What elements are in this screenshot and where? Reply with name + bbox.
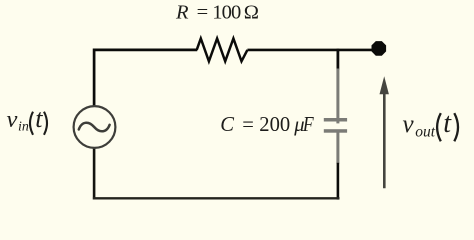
resistor R1 (zigzag) [197, 39, 248, 62]
wire: capacitor bottom lead (gray) [336, 133, 339, 164]
arrow: v_out arrowhead [380, 76, 389, 94]
svg-text:R=100Ω: R=100Ω [175, 2, 259, 24]
wire: source bottom lead [93, 149, 96, 200]
source V1: AC source circle [74, 106, 116, 148]
label: v_out(t) [403, 108, 459, 142]
source V1: sine symbol [79, 123, 110, 132]
label: v_in(t) [7, 104, 48, 135]
arrow: v_out arrow shaft [383, 92, 386, 188]
wire: source top lead and top-left horizontal run to resistor [94, 50, 197, 106]
capacitor C1 top plate [324, 118, 347, 122]
wire: resistor to output node [247, 49, 374, 52]
wire: bottom return wire from source to capacitor branch [93, 197, 340, 199]
wire: junction stub down from top wire (black) [336, 49, 339, 70]
wire: capacitor branch bottom (black) [337, 163, 340, 200]
capacitor C1 bottom plate [324, 129, 347, 133]
node: output node dot (octagon) [372, 41, 387, 56]
wire: capacitor top lead (gray) [336, 69, 339, 124]
